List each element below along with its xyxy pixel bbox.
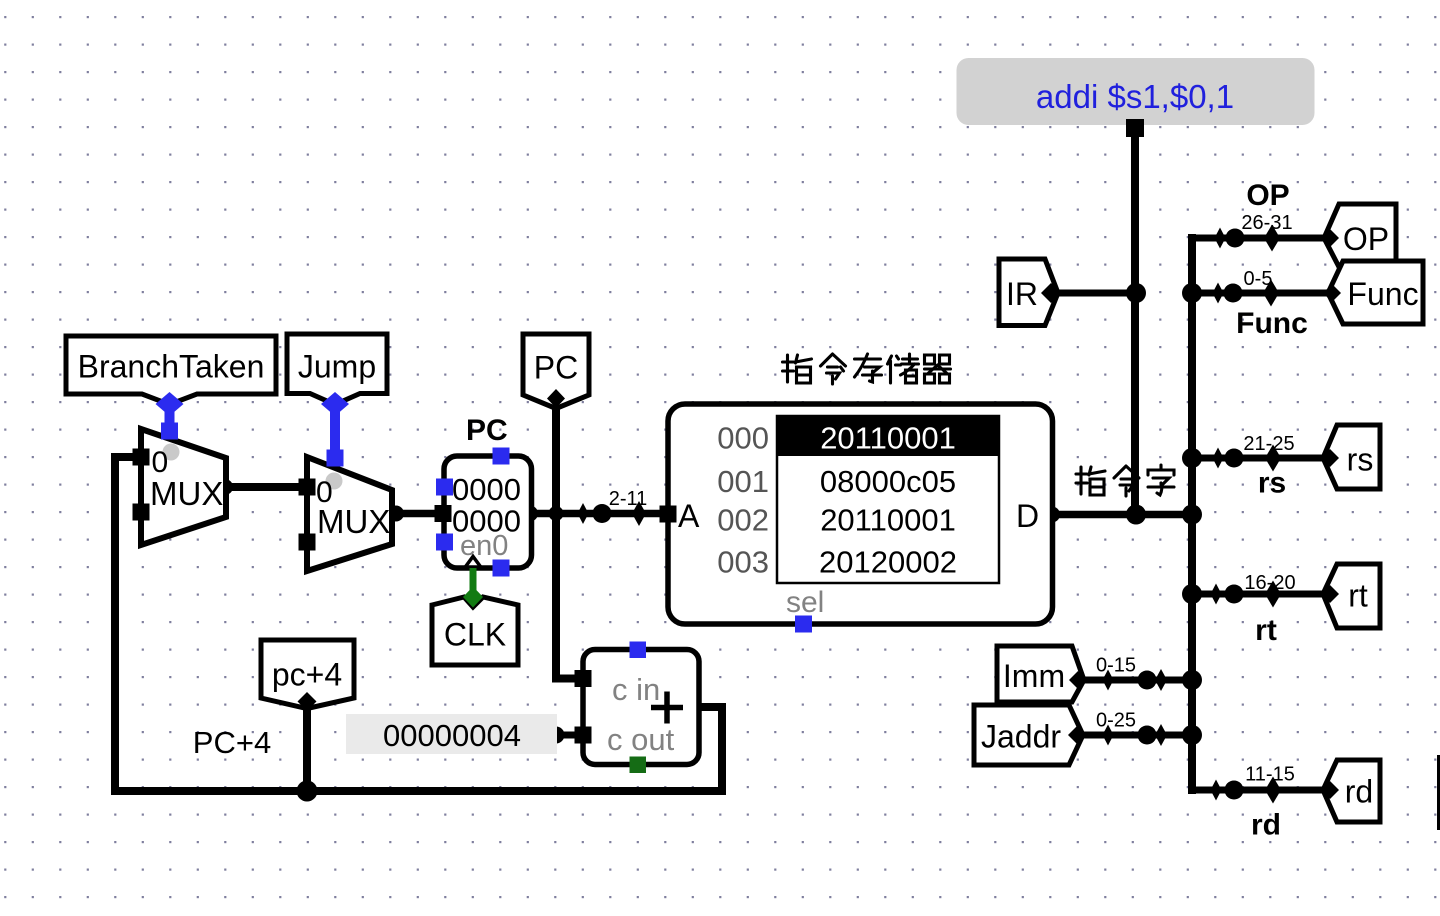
char 令 (2) <box>1114 466 1139 496</box>
svg-text:11-15: 11-15 <box>1245 764 1295 786</box>
pin diamond Jaddr <box>1068 726 1086 744</box>
label Jaddr <box>974 705 1083 765</box>
adder <box>575 642 700 774</box>
wire MUX1 to MUX2 <box>226 483 308 491</box>
splitter OP 26-31 <box>1215 228 1226 249</box>
svg-text:c in: c in <box>612 672 660 707</box>
svg-text:IR: IR <box>1006 276 1038 312</box>
splitter rs 21-25 <box>1213 448 1224 469</box>
pin diamond Imm <box>1069 671 1087 689</box>
svg-text:PC: PC <box>466 414 508 447</box>
svg-text:rs: rs <box>1347 442 1374 478</box>
node MUX2 output dot <box>388 506 404 522</box>
pin diamond Func <box>1323 284 1341 302</box>
svg-text:Jump: Jump <box>298 349 376 385</box>
mux MUX1 <box>133 429 227 545</box>
svg-text:MUX: MUX <box>150 475 223 512</box>
svg-text:20120002: 20120002 <box>819 545 957 580</box>
pin diamond OP <box>1321 229 1339 247</box>
svg-text:0-25: 0-25 <box>1096 710 1136 732</box>
pin diamond PC flag <box>547 389 565 408</box>
svg-text:rd: rd <box>1251 809 1281 842</box>
label rt flag <box>1323 564 1380 628</box>
flag point diamonds <box>298 229 1342 799</box>
splitter dot rd <box>1225 781 1244 800</box>
splitter dot Jaddr <box>1138 726 1157 745</box>
svg-text:08000c05: 08000c05 <box>820 464 956 499</box>
wire PC register to memory A <box>531 510 661 518</box>
svg-text:0-15: 0-15 <box>1096 655 1136 677</box>
wire instruction bus from addi down to D <box>1131 130 1139 515</box>
char 存 <box>855 354 882 382</box>
svg-text:BranchTaken: BranchTaken <box>78 349 265 385</box>
svg-text:00000004: 00000004 <box>383 718 521 753</box>
splitter Imm 0-15 <box>1103 670 1114 691</box>
splitter rd 11-15 <box>1211 780 1222 801</box>
wire PC flag down to adder c-in <box>556 408 576 679</box>
FLAG LABELS <box>66 204 1423 822</box>
char 令 <box>821 354 846 384</box>
label rs flag <box>1323 425 1380 489</box>
label OP flag <box>1324 204 1396 267</box>
svg-text:Imm: Imm <box>1003 658 1065 694</box>
svg-text:rs: rs <box>1258 467 1286 500</box>
label rd flag <box>1323 760 1380 822</box>
svg-text:D: D <box>1016 498 1039 534</box>
node IR/bus junction <box>1126 283 1146 303</box>
svg-text:26-31: 26-31 <box>1241 212 1292 234</box>
label Imm <box>997 646 1084 702</box>
svg-text:rt: rt <box>1348 578 1368 614</box>
edge sliver right border <box>1437 755 1440 830</box>
wire Jaddr branch <box>1083 732 1192 739</box>
text 指令存储器 title <box>783 355 812 383</box>
wire rt branch <box>1192 591 1327 598</box>
char 指 <box>783 355 812 383</box>
svg-text:002: 002 <box>717 503 769 538</box>
node MUX1 output dot <box>217 479 233 495</box>
node splitter dot 2-11 <box>593 504 612 523</box>
wire rd branch <box>1192 787 1327 794</box>
char 指 (2) <box>1076 467 1105 495</box>
splitter 2-11 <box>578 503 589 524</box>
wire IR to bus <box>1058 290 1136 297</box>
svg-text:Func: Func <box>1236 307 1308 340</box>
svg-text:OP: OP <box>1343 221 1389 257</box>
CHINESE TEXT (hand drawn) <box>783 354 1175 496</box>
svg-text:sel: sel <box>786 586 824 619</box>
splitter dot rt <box>1225 585 1244 604</box>
svg-text:20110001: 20110001 <box>820 421 956 456</box>
clock wire green <box>463 568 483 608</box>
svg-text:003: 003 <box>717 545 769 580</box>
svg-text:en0: en0 <box>460 530 508 562</box>
node D output dot <box>1044 507 1060 523</box>
label Func flag <box>1328 261 1423 324</box>
pin diamond IR <box>1041 283 1061 303</box>
wire OP branch <box>1192 235 1327 242</box>
svg-text:16-20: 16-20 <box>1244 572 1295 594</box>
wire Func branch <box>1192 290 1327 297</box>
splitter dot Func <box>1224 284 1243 303</box>
label pc+4 <box>261 640 354 709</box>
node constant output dot <box>548 727 565 744</box>
pin diamond rd <box>1321 781 1339 799</box>
svg-text:21-25: 21-25 <box>1243 433 1294 455</box>
node instruction-word junction <box>1126 505 1146 525</box>
svg-text:PC: PC <box>534 350 578 386</box>
node Jaddr junction <box>1182 725 1202 745</box>
node PC-flag junction <box>549 506 564 521</box>
svg-text:001: 001 <box>717 464 769 499</box>
select arrow BranchTaken <box>156 392 184 440</box>
wire pc+4 flag down to feedback <box>303 708 311 791</box>
splitter rt 16-20 <box>1211 584 1222 605</box>
wire feedback loop PC+4 <box>115 457 722 791</box>
svg-text:000: 000 <box>717 421 769 456</box>
register PC <box>435 414 532 577</box>
pin diamond rt <box>1321 585 1339 603</box>
node adder output dot <box>684 699 700 715</box>
svg-text:CLK: CLK <box>444 617 506 653</box>
SPLITTER MARKS (diamonds) <box>578 225 1282 804</box>
node PC output dot <box>522 506 538 522</box>
svg-text:rd: rd <box>1345 774 1373 810</box>
char 器 <box>925 355 951 383</box>
node D/bus junction <box>1182 505 1202 525</box>
svg-text:A: A <box>678 498 700 534</box>
svg-text:0000: 0000 <box>452 472 521 507</box>
svg-text:c out: c out <box>607 722 675 757</box>
mux MUX2 <box>299 457 393 571</box>
wire MUX2 to PC register <box>392 510 436 518</box>
node pc+4 feedback junction <box>297 781 318 802</box>
text 指令字 net label <box>1076 467 1105 495</box>
label IR <box>999 259 1058 326</box>
node Func/bus junction <box>1182 283 1202 303</box>
wire main field bus vertical <box>1188 238 1196 790</box>
splitter dot Imm <box>1138 671 1157 690</box>
label Jump <box>287 334 387 405</box>
wire rs branch <box>1192 455 1327 462</box>
svg-text:PC+4: PC+4 <box>193 725 271 760</box>
char 储 <box>888 354 919 383</box>
label PC (pin flag) <box>523 334 589 409</box>
svg-text:Func: Func <box>1347 276 1418 312</box>
splitter Jaddr 0-25 <box>1103 725 1114 746</box>
instruction box addi <box>957 58 1315 137</box>
wire Imm branch <box>1084 677 1192 684</box>
pin diamond rs <box>1321 449 1339 467</box>
char 字 <box>1148 465 1174 495</box>
svg-text:OP: OP <box>1246 179 1289 212</box>
wire constant 4 to adder <box>556 732 576 739</box>
svg-text:20110001: 20110001 <box>820 503 956 538</box>
svg-text:2-11: 2-11 <box>609 488 648 510</box>
select arrow Jump <box>321 392 349 467</box>
label BranchTaken <box>66 336 276 405</box>
wire D output to bus <box>1052 511 1192 519</box>
node rt junction <box>1182 584 1202 604</box>
pin diamond pc+4 <box>298 692 317 711</box>
svg-text:MUX: MUX <box>317 503 390 540</box>
node Imm junction <box>1182 670 1202 690</box>
svg-text:rt: rt <box>1255 614 1277 647</box>
svg-text:Jaddr: Jaddr <box>981 719 1061 755</box>
svg-text:0-5: 0-5 <box>1244 268 1273 290</box>
splitter Func 0-5 <box>1213 283 1224 304</box>
svg-text:addi $s1,$0,1: addi $s1,$0,1 <box>1036 78 1234 115</box>
constant 00000004 <box>346 714 557 754</box>
memory box 指令存储器 <box>660 404 1053 633</box>
node rs junction <box>1182 448 1202 468</box>
splitter dot rs <box>1225 449 1244 468</box>
label CLK <box>432 597 518 665</box>
splitter dot OP <box>1226 229 1245 248</box>
svg-text:pc+4: pc+4 <box>272 657 342 693</box>
